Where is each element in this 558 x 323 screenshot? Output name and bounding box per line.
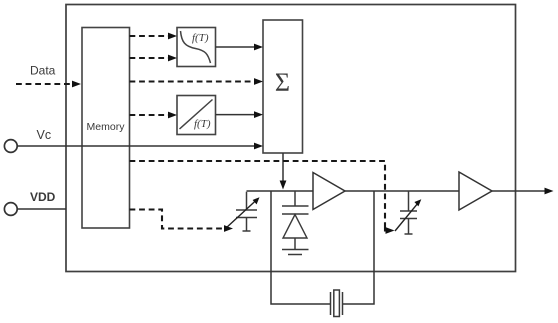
svg-text:Σ: Σ	[275, 68, 290, 97]
svg-text:Vc: Vc	[37, 128, 52, 142]
svg-text:VDD: VDD	[30, 190, 56, 204]
svg-text:f(T): f(T)	[194, 118, 211, 130]
svg-text:Memory: Memory	[87, 121, 126, 133]
svg-text:Data: Data	[30, 64, 56, 78]
svg-text:f(T): f(T)	[192, 32, 209, 44]
